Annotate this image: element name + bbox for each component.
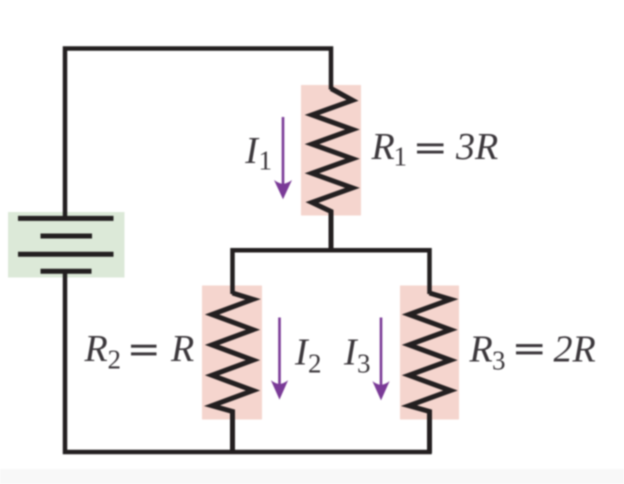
current arrow I3 [372, 318, 389, 401]
svg-text:3R: 3R [455, 126, 498, 168]
svg-text:R: R [469, 329, 493, 371]
svg-text:R: R [84, 328, 108, 370]
wire middle rail [233, 250, 430, 294]
svg-text:R: R [170, 328, 194, 370]
battery highlight box [8, 212, 125, 278]
svg-text:1: 1 [394, 142, 408, 172]
current arrow I2 [271, 318, 288, 400]
resistor R3 highlight box [400, 286, 459, 420]
current arrow I1 [274, 117, 292, 199]
label I2 [294, 332, 322, 379]
label R1 = 3R [371, 126, 499, 172]
battery plate long top [18, 216, 114, 221]
resistor R1 zigzag [312, 89, 353, 253]
resistor R3 zigzag [409, 293, 451, 453]
svg-text:3: 3 [357, 349, 371, 379]
label R2 = R [84, 328, 195, 375]
resistor R2 highlight box [202, 286, 262, 420]
label I1 [244, 130, 272, 176]
svg-text:2R: 2R [554, 329, 596, 371]
battery plate short bottom [41, 269, 92, 274]
svg-text:R: R [371, 126, 395, 168]
resistor R2 zigzag [212, 293, 253, 453]
wire top loop (battery + to R1) [65, 49, 331, 217]
resistor R1 highlight box [301, 85, 361, 216]
label R3 = 2R [469, 329, 596, 376]
battery plate short [41, 234, 93, 239]
wire bottom loop (battery - to parallel section) [65, 271, 430, 452]
label I3 [343, 332, 371, 379]
bottom page strip [0, 469, 624, 484]
svg-text:1: 1 [259, 146, 273, 176]
svg-text:3: 3 [492, 346, 506, 376]
battery plate long [18, 252, 114, 257]
svg-text:2: 2 [308, 349, 322, 379]
svg-text:2: 2 [108, 345, 122, 375]
